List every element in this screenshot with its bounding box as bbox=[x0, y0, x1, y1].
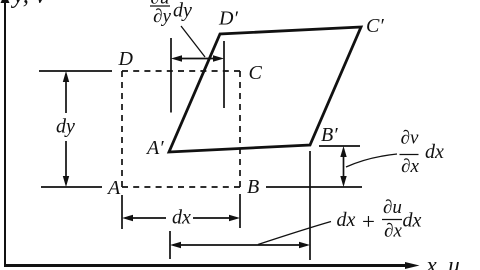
dashed square ABCD bbox=[122, 71, 240, 187]
du/dy dy value label (fraction) bbox=[150, 0, 192, 27]
dv/dx dimension double arrow bbox=[340, 146, 346, 187]
dv/dx leader line bbox=[346, 154, 397, 167]
dx+du/dx dimension double arrow bbox=[170, 242, 310, 248]
svg-text:dx: dx bbox=[425, 141, 444, 163]
svg-text:B: B bbox=[247, 176, 259, 198]
svg-text:C′: C′ bbox=[366, 15, 384, 37]
svg-text:dx: dx bbox=[172, 207, 191, 229]
svg-text:∂u: ∂u bbox=[383, 197, 402, 218]
svg-text:dy: dy bbox=[56, 116, 75, 138]
dy dimension arrow upper bbox=[63, 71, 69, 113]
du/dy leader line bbox=[181, 26, 205, 57]
dx + du/dx dx value label bbox=[337, 197, 422, 242]
dx dimension arrow left bbox=[122, 215, 166, 221]
svg-text:dx: dx bbox=[337, 209, 356, 231]
dx+du/dx leader line bbox=[258, 222, 331, 245]
svg-text:y, v: y, v bbox=[10, 0, 47, 9]
svg-text:dy: dy bbox=[173, 0, 192, 22]
svg-text:∂v: ∂v bbox=[401, 128, 419, 149]
svg-text:A′: A′ bbox=[145, 137, 164, 159]
dv/dx dx value label (fraction) bbox=[400, 128, 445, 178]
dx dimension extension line left bbox=[121, 195, 123, 229]
svg-text:C: C bbox=[249, 62, 263, 84]
x-axis bbox=[4, 262, 420, 269]
svg-text:x, u: x, u bbox=[426, 253, 460, 270]
svg-text:dx: dx bbox=[403, 210, 422, 232]
dy dimension extension line bottom bbox=[41, 186, 102, 188]
svg-text:∂y: ∂y bbox=[153, 6, 171, 27]
dy dimension arrow lower bbox=[63, 141, 69, 187]
du/dy dimension double arrow bbox=[171, 55, 224, 61]
y-axis bbox=[1, 0, 10, 266]
svg-text:D′: D′ bbox=[218, 8, 238, 30]
dx dimension extension line right bbox=[239, 194, 241, 228]
dy dimension extension line top bbox=[39, 70, 112, 72]
du/dy dimension tick left bbox=[170, 38, 172, 113]
svg-text:∂x: ∂x bbox=[384, 221, 402, 242]
dx dimension arrow right bbox=[193, 215, 240, 221]
dv/dx dimension extension line top bbox=[319, 145, 360, 147]
dv/dx dimension extension line bottom bbox=[266, 186, 362, 188]
svg-text:B′: B′ bbox=[321, 124, 338, 146]
du/dy dimension tick right bbox=[223, 41, 225, 108]
svg-text:D: D bbox=[118, 48, 134, 70]
parallelogram A'B'C'D' bbox=[169, 27, 361, 152]
dx+du/dx dimension vertical line right (below B') bbox=[309, 151, 311, 260]
svg-text:∂x: ∂x bbox=[401, 156, 419, 177]
svg-text:+: + bbox=[361, 209, 377, 234]
dx+du/dx dimension tick left bbox=[169, 231, 171, 259]
svg-text:A: A bbox=[106, 177, 121, 199]
